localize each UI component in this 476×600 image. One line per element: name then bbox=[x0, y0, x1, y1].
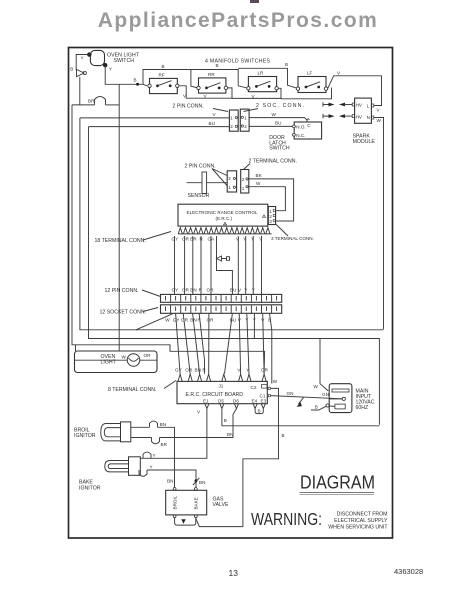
wire GY 18term to 12pin bbox=[172, 236, 179, 294]
svg-text:V: V bbox=[238, 288, 242, 293]
label main input bbox=[356, 389, 375, 412]
svg-text:2 SOC. CONN.: 2 SOC. CONN. bbox=[256, 103, 304, 109]
svg-text:ELECTRONIC RANGE CONTROL: ELECTRONIC RANGE CONTROL bbox=[187, 210, 258, 215]
svg-text:E3: E3 bbox=[261, 399, 267, 404]
label spark module bbox=[353, 134, 376, 145]
svg-text:RF: RF bbox=[159, 73, 165, 78]
manifold switch RR bbox=[197, 72, 228, 93]
wire socket GY down to board bbox=[176, 313, 181, 374]
label 8 terminal conn bbox=[108, 381, 176, 394]
board bottom terminal labels bbox=[203, 399, 267, 404]
bake ignitor element bbox=[105, 457, 141, 476]
wire bump line with BR quick-connect bbox=[72, 97, 119, 105]
svg-text:(E.R.C.): (E.R.C.) bbox=[216, 216, 233, 221]
wire V 18term to 12pin bbox=[251, 236, 254, 294]
svg-text:OR: OR bbox=[181, 318, 189, 323]
connector sensor 2 terminal bbox=[241, 170, 249, 194]
svg-text:B: B bbox=[70, 67, 73, 72]
svg-text:SWITCH: SWITCH bbox=[269, 146, 290, 152]
svg-text:C1: C1 bbox=[260, 394, 266, 399]
door latch switch bbox=[293, 119, 322, 139]
label 12 pin conn bbox=[105, 288, 161, 297]
spade connector on bake valve feed bbox=[193, 478, 205, 485]
svg-text:HV: HV bbox=[356, 114, 363, 119]
svg-text:B: B bbox=[224, 418, 227, 423]
svg-text:DIAGRAM: DIAGRAM bbox=[300, 472, 375, 493]
wire RF right pin down to V bus bbox=[179, 86, 232, 98]
svg-text:12 PIN CONN.: 12 PIN CONN. bbox=[105, 288, 139, 294]
svg-text:Y: Y bbox=[244, 288, 247, 293]
svg-text:B: B bbox=[315, 405, 318, 410]
svg-text:BR: BR bbox=[161, 442, 168, 447]
svg-text:2: 2 bbox=[230, 124, 233, 129]
wire bake bottom with connector bbox=[139, 465, 196, 488]
svg-text:OR: OR bbox=[261, 368, 269, 373]
wire spark N down right side bbox=[374, 118, 384, 330]
svg-text:WARNING:: WARNING: bbox=[251, 509, 322, 529]
svg-text:GN: GN bbox=[287, 391, 294, 396]
label 18 terminal conn bbox=[95, 232, 172, 245]
label WARNING bbox=[251, 509, 388, 531]
svg-text:B: B bbox=[258, 409, 261, 414]
label oven light bbox=[101, 353, 152, 365]
svg-text:BN: BN bbox=[160, 422, 166, 427]
label DIAGRAM bbox=[300, 472, 376, 495]
svg-text:OR: OR bbox=[182, 237, 190, 242]
svg-text:Y: Y bbox=[153, 453, 156, 458]
connector 12 pin strip bbox=[161, 294, 282, 302]
wire socket B down to board C2 riser bbox=[270, 313, 272, 383]
board bottom terminals bbox=[205, 404, 266, 409]
manifold switch RF bbox=[148, 73, 179, 94]
svg-text:8 TERMINAL CONN.: 8 TERMINAL CONN. bbox=[108, 387, 156, 393]
labels below 12 socket strip bbox=[165, 318, 271, 323]
svg-text:DISCONNECT FROM: DISCONNECT FROM bbox=[337, 512, 388, 518]
wire RR right pin down to V bus bbox=[228, 88, 281, 99]
svg-text:BU: BU bbox=[275, 121, 281, 126]
label 3 terminal conn bbox=[271, 225, 314, 241]
wire socket Y2 down to H2 bbox=[253, 313, 255, 338]
svg-text:1: 1 bbox=[230, 115, 233, 120]
svg-text:W: W bbox=[272, 112, 277, 117]
wire socket OR2 down to board bbox=[208, 313, 210, 374]
svg-text:RR: RR bbox=[208, 72, 215, 77]
wire sensor W to 3 term pin1 bbox=[249, 181, 286, 211]
wire W bus H1 bbox=[80, 118, 384, 330]
svg-text:J1: J1 bbox=[219, 383, 224, 388]
svg-text:E4: E4 bbox=[252, 399, 258, 404]
svg-text:W: W bbox=[165, 318, 170, 323]
svg-text:BU: BU bbox=[230, 288, 236, 293]
svg-text:BN: BN bbox=[195, 368, 201, 373]
wire E1 V to bake igniter bbox=[143, 409, 207, 459]
svg-text:BU: BU bbox=[209, 121, 215, 126]
wire broil top with connector bbox=[131, 421, 175, 487]
svg-text:V: V bbox=[197, 410, 201, 415]
labels above 12 pin strip bbox=[172, 288, 255, 293]
main input box bbox=[326, 384, 352, 413]
svg-text:12 SOCKET CONN.: 12 SOCKET CONN. bbox=[100, 310, 147, 316]
wire broil bottom with connector bbox=[131, 438, 168, 448]
board pin C1 bbox=[260, 394, 271, 399]
wire BR 18term to 12pin bbox=[190, 236, 197, 294]
sensor bbox=[187, 172, 228, 194]
svg-text:ELECTRICAL SUPPLY: ELECTRICAL SUPPLY bbox=[334, 518, 388, 524]
connector 3 terminal bbox=[268, 207, 275, 225]
svg-text:2 PIN CONN.: 2 PIN CONN. bbox=[185, 164, 216, 170]
label door latch switch bbox=[269, 135, 290, 152]
svg-text:W: W bbox=[314, 384, 319, 389]
svg-text:BR: BR bbox=[190, 237, 197, 242]
svg-text:1: 1 bbox=[244, 115, 247, 120]
svg-text:BN: BN bbox=[227, 432, 233, 437]
chassis ground arrow bbox=[297, 398, 304, 407]
svg-text:13: 13 bbox=[229, 568, 239, 578]
svg-text:D6: D6 bbox=[233, 399, 239, 404]
wire Y2 18term to 12pin bbox=[243, 236, 246, 294]
svg-text:3 TERMINAL CONN.: 3 TERMINAL CONN. bbox=[271, 236, 314, 241]
svg-text:60HZ: 60HZ bbox=[356, 405, 369, 411]
svg-text:N: N bbox=[367, 115, 370, 120]
main input B feed bbox=[311, 405, 326, 411]
connector 12 socket strip bbox=[161, 305, 282, 314]
svg-text:C2: C2 bbox=[251, 385, 257, 390]
svg-text:Y: Y bbox=[246, 368, 249, 373]
wire socket BN down to board bbox=[193, 313, 200, 374]
svg-text:4363028: 4363028 bbox=[394, 567, 423, 576]
wire socket Y down to board bbox=[247, 313, 249, 374]
wire OR with quick disconnect to 12pin BU bbox=[208, 236, 233, 294]
wire socket OR down to board bbox=[183, 313, 190, 374]
oven light switch bulb bbox=[87, 50, 107, 67]
svg-text:MODULE: MODULE bbox=[353, 139, 376, 145]
wire LF right pin to spark module L via top bbox=[328, 76, 382, 106]
svg-text:2 TERMINAL CONN.: 2 TERMINAL CONN. bbox=[249, 159, 297, 165]
spade connector B bbox=[70, 67, 86, 77]
wire BU feed to pin conn bbox=[89, 121, 230, 127]
svg-text:SWITCH: SWITCH bbox=[114, 58, 135, 64]
label 2 terminal conn bbox=[244, 159, 297, 170]
label 12 socket conn bbox=[100, 308, 159, 316]
wire V2 18term to 12pin bbox=[259, 236, 263, 294]
border frame bbox=[69, 48, 393, 539]
label 2 pin conn lower bbox=[185, 164, 228, 186]
svg-text:Y: Y bbox=[150, 465, 153, 470]
svg-text:2: 2 bbox=[242, 177, 245, 182]
top crop mark bbox=[250, 0, 259, 3]
wire socket V down to board bbox=[239, 313, 240, 374]
svg-text:IGNITOR: IGNITOR bbox=[79, 485, 101, 491]
connector 2 socket bbox=[240, 109, 249, 131]
broil ignitor element bbox=[101, 422, 131, 442]
connector sensor 2 pin bbox=[227, 171, 236, 192]
svg-text:BK: BK bbox=[256, 173, 263, 178]
connector 18 terminal strip bbox=[178, 228, 272, 234]
svg-text:W: W bbox=[256, 181, 261, 186]
svg-text:BN: BN bbox=[199, 480, 205, 485]
svg-text:LF: LF bbox=[307, 71, 313, 76]
svg-text:BN: BN bbox=[190, 288, 196, 293]
svg-text:OR: OR bbox=[185, 368, 193, 373]
svg-text:B: B bbox=[216, 63, 219, 68]
label 2 pin conn upper bbox=[173, 104, 229, 112]
svg-text:2: 2 bbox=[244, 124, 247, 129]
wire B bus hop 3 bbox=[238, 68, 298, 88]
wire D5 B to main input route bbox=[222, 409, 380, 426]
svg-text:W: W bbox=[377, 118, 382, 123]
wire socket W diagonal to H1 bbox=[136, 314, 173, 330]
wire socket BU down to board mid bbox=[225, 313, 233, 374]
wire R 18term to 12pin bbox=[200, 236, 204, 294]
wire H3 bbox=[72, 105, 265, 374]
svg-text:GN: GN bbox=[322, 392, 329, 397]
gas valve bottom loop with ground bbox=[175, 518, 196, 525]
wire BU bus H2 bbox=[89, 127, 380, 425]
manifold switch LF bbox=[296, 71, 327, 93]
wire soc pin2 to door latch NO bbox=[249, 121, 292, 127]
svg-text:N.O.: N.O. bbox=[296, 124, 305, 129]
svg-text:HV: HV bbox=[356, 103, 363, 108]
svg-text:Y: Y bbox=[109, 66, 112, 71]
svg-text:OR: OR bbox=[207, 318, 215, 323]
svg-text:Y: Y bbox=[81, 56, 84, 61]
label bake ignitor bbox=[79, 480, 101, 492]
svg-text:R: R bbox=[199, 288, 203, 293]
svg-text:LR: LR bbox=[258, 71, 265, 76]
svg-text:GY: GY bbox=[172, 288, 179, 293]
label broil ignitor bbox=[74, 428, 96, 440]
svg-text:R: R bbox=[200, 237, 204, 242]
wire E4 E3 loop bbox=[255, 409, 263, 414]
main input W feed bbox=[314, 339, 329, 391]
ERC electronic range control bbox=[178, 204, 268, 226]
wire D6 BN to broil igniter bbox=[160, 409, 237, 438]
wire soc pin1 to door latch C bbox=[249, 112, 307, 120]
svg-text:V: V bbox=[377, 108, 381, 113]
svg-text:OR: OR bbox=[144, 353, 152, 358]
svg-text:B: B bbox=[162, 64, 165, 69]
spark electrode top bbox=[323, 102, 353, 107]
svg-text:N.C.: N.C. bbox=[296, 133, 305, 138]
svg-text:BN: BN bbox=[167, 479, 173, 484]
oven light switch label bbox=[107, 53, 140, 64]
svg-text:VALVE: VALVE bbox=[213, 502, 229, 508]
connector 2 pin bbox=[229, 110, 238, 131]
ERC circuit board bbox=[177, 381, 267, 403]
svg-text:2: 2 bbox=[228, 176, 231, 181]
wire C2 to gas valve return bbox=[196, 388, 279, 526]
wire bulb left to spade bbox=[76, 55, 89, 71]
svg-text:SENSOR: SENSOR bbox=[188, 193, 210, 199]
svg-text:BR: BR bbox=[88, 99, 95, 104]
spark module bbox=[352, 98, 374, 123]
wire bake top with connector bbox=[140, 452, 155, 458]
wire spade down to bump line bbox=[79, 77, 81, 105]
svg-text:D5: D5 bbox=[218, 399, 224, 404]
oven light enclosure bbox=[75, 84, 158, 372]
svg-text:1: 1 bbox=[242, 186, 245, 191]
wire OR 18term to 12pin bbox=[182, 236, 190, 294]
svg-text:B: B bbox=[134, 78, 137, 83]
wire sensor BK to 3 term pin3 bbox=[249, 173, 294, 221]
svg-text:3: 3 bbox=[269, 219, 272, 224]
board top terminals 8 bbox=[178, 374, 266, 381]
svg-text:2 PIN CONN.: 2 PIN CONN. bbox=[173, 104, 204, 110]
svg-text:1: 1 bbox=[228, 185, 231, 190]
svg-text:BU: BU bbox=[230, 318, 236, 323]
svg-text:L: L bbox=[367, 103, 370, 108]
svg-text:GY: GY bbox=[175, 368, 182, 373]
oven light bulb bbox=[75, 354, 158, 367]
svg-text:BAKE: BAKE bbox=[194, 497, 199, 509]
wire B bus hop 2 bbox=[191, 70, 249, 89]
wire C1 GN to main input bbox=[271, 391, 343, 399]
wire bulb to switch row B bbox=[105, 65, 147, 86]
manifold switch LR bbox=[247, 71, 279, 92]
svg-text:C: C bbox=[307, 123, 311, 128]
svg-text:E1: E1 bbox=[203, 399, 209, 404]
svg-text:LIGHT: LIGHT bbox=[101, 360, 117, 366]
wire Y1 18term to 12pin bbox=[236, 236, 240, 294]
svg-text:V: V bbox=[337, 70, 341, 75]
svg-text:W: W bbox=[122, 354, 127, 359]
svg-text:W: W bbox=[273, 379, 278, 384]
svg-text:E.R.C. CIRCUIT BOARD: E.R.C. CIRCUIT BOARD bbox=[186, 392, 244, 398]
board pin C2 bbox=[251, 385, 271, 391]
board terminal labels bbox=[175, 368, 269, 373]
wire LR right pin down to V bus bbox=[278, 88, 331, 99]
svg-text:OR: OR bbox=[182, 288, 190, 293]
svg-text:R: R bbox=[202, 368, 206, 373]
svg-text:IGNITOR: IGNITOR bbox=[74, 433, 96, 439]
wire socket R down to board bbox=[199, 313, 204, 374]
label gas valve bbox=[213, 497, 229, 509]
svg-text:BROIL: BROIL bbox=[173, 495, 178, 509]
wire V feed to pin conn bbox=[80, 112, 230, 118]
svg-text:18 TERMINAL CONN.: 18 TERMINAL CONN. bbox=[95, 238, 146, 244]
gas valve bbox=[166, 488, 207, 518]
svg-text:WHEN SERVICING UNIT: WHEN SERVICING UNIT bbox=[328, 525, 388, 531]
svg-text:B: B bbox=[282, 433, 285, 438]
svg-text:Y: Y bbox=[252, 288, 255, 293]
spark electrode bottom bbox=[323, 114, 353, 119]
wire B bus riser 1 bbox=[143, 70, 199, 89]
wire socket V2 down to board OR bbox=[263, 313, 264, 374]
label 2 soc conn bbox=[244, 103, 305, 112]
svg-text:OR: OR bbox=[207, 288, 215, 293]
svg-text:V: V bbox=[213, 112, 217, 117]
svg-text:B: B bbox=[285, 62, 288, 67]
